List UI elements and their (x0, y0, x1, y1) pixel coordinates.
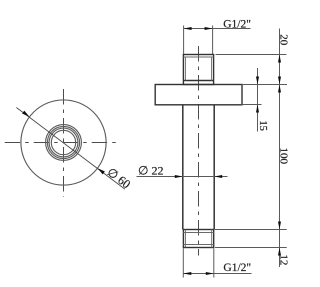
svg-text:∅ 22: ∅ 22 (138, 163, 163, 177)
svg-text:20: 20 (277, 34, 289, 46)
svg-text:100: 100 (277, 148, 289, 165)
svg-text:G1/2": G1/2" (223, 262, 251, 274)
svg-text:G1/2": G1/2" (223, 18, 251, 30)
svg-text:15: 15 (257, 120, 268, 130)
svg-text:12: 12 (278, 254, 290, 265)
svg-text:∅ 60: ∅ 60 (104, 165, 133, 191)
